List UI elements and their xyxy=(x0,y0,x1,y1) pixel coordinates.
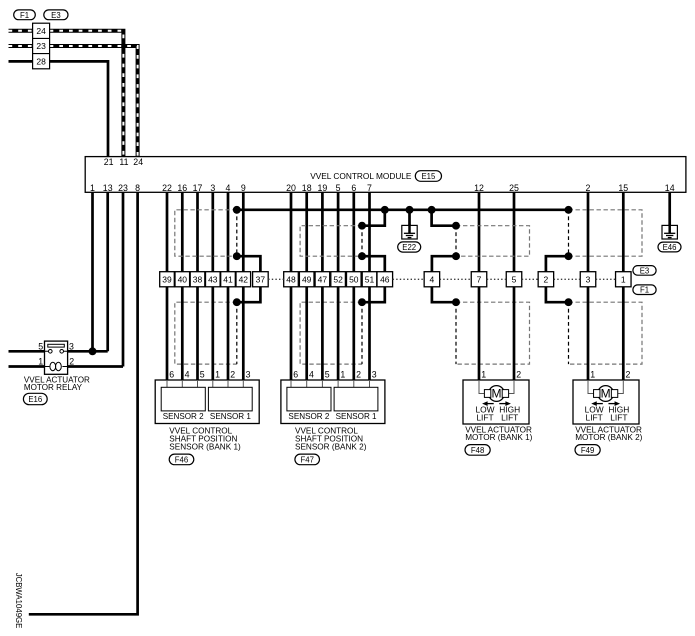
svg-text:15: 15 xyxy=(618,183,628,193)
dotted link 5-2 xyxy=(522,278,538,280)
svg-text:7: 7 xyxy=(477,274,482,284)
wire pin15 to splice 1 xyxy=(622,192,625,271)
splice 41 xyxy=(221,272,236,287)
motor F48 symbol xyxy=(479,380,514,394)
svg-text:F49: F49 xyxy=(581,446,594,455)
shield outline bank2 sensor lower xyxy=(300,302,362,364)
svg-text:28: 28 xyxy=(36,56,46,66)
splice 52 xyxy=(331,272,346,287)
svg-text:E16: E16 xyxy=(28,395,42,404)
wire 23 (two-tone) to module pin 24 xyxy=(9,44,33,48)
wire bus to ground E22 xyxy=(408,210,411,226)
wire splice 7 to motor F48 pin1 xyxy=(478,287,481,380)
svg-text:2: 2 xyxy=(69,357,74,367)
motor F49 symbol xyxy=(588,380,623,394)
svg-text:5: 5 xyxy=(512,274,517,284)
svg-text:50: 50 xyxy=(349,274,359,284)
svg-text:12: 12 xyxy=(474,183,484,193)
shield outline bank2 sensor upper xyxy=(300,226,362,257)
wire 24 (two-tone) to module pin 11 xyxy=(9,29,33,33)
svg-text:E3: E3 xyxy=(51,11,61,20)
shield drain bank2 actuator lower xyxy=(568,302,570,364)
svg-text:2: 2 xyxy=(230,370,235,380)
svg-text:F1: F1 xyxy=(640,286,649,295)
splice 38 xyxy=(190,272,205,287)
svg-text:40: 40 xyxy=(178,274,188,284)
junction dots upper elbows xyxy=(358,222,366,230)
svg-text:2: 2 xyxy=(356,370,361,380)
dotted link 46-4 xyxy=(393,278,425,280)
shield drain bank1 sensor upper xyxy=(236,210,238,256)
svg-text:1: 1 xyxy=(90,183,95,193)
shield outline bank2 actuator lower xyxy=(569,302,643,364)
bus tap to bank2 sensor shield xyxy=(362,210,385,226)
svg-text:5: 5 xyxy=(38,341,43,351)
svg-text:2: 2 xyxy=(544,274,549,284)
wire splice 4 to lower shield xyxy=(432,287,456,302)
svg-text:39: 39 xyxy=(162,274,172,284)
splice 5 xyxy=(506,272,522,287)
wire pin12 to splice 7 xyxy=(478,192,481,271)
splice 46 xyxy=(377,272,393,287)
splice 50 xyxy=(347,272,362,287)
splice 3 xyxy=(580,272,596,287)
svg-text:LIFT: LIFT xyxy=(501,412,518,422)
wires module pins 22 16 17 3 4 9 to splices 39 40 38 43 41 42 xyxy=(166,192,169,271)
dotted link 4-7 xyxy=(440,278,472,280)
splice 39 xyxy=(160,272,175,287)
dotted link 7-5 xyxy=(487,278,507,280)
svg-text:46: 46 xyxy=(380,274,390,284)
wire pin2 to splice 3 xyxy=(587,192,590,271)
wire pin8 to bottom left xyxy=(29,192,138,614)
svg-text:3: 3 xyxy=(246,370,251,380)
svg-text:41: 41 xyxy=(223,274,233,284)
wires splices 39-42 to sensor F46 xyxy=(166,287,169,380)
splice 1 xyxy=(616,272,632,287)
svg-text:2: 2 xyxy=(626,370,631,380)
junction dots on bus xyxy=(233,206,241,214)
VVEL control shaft position sensor (bank 2) F47 xyxy=(281,380,385,424)
splice 2 xyxy=(538,272,554,287)
svg-text:JCBWA1049GE: JCBWA1049GE xyxy=(14,573,23,629)
svg-text:1: 1 xyxy=(621,274,626,284)
svg-text:6: 6 xyxy=(293,370,298,380)
shield outline bank1 actuator upper xyxy=(456,226,530,257)
svg-text:1: 1 xyxy=(590,370,595,380)
svg-text:16: 16 xyxy=(177,183,187,193)
VVEL actuator motor relay E16 xyxy=(9,350,45,353)
shield drain bank2 actuator upper xyxy=(568,210,570,256)
svg-text:SENSOR 1: SENSOR 1 xyxy=(210,412,251,421)
svg-text:F1: F1 xyxy=(20,11,29,20)
svg-text:24: 24 xyxy=(36,26,46,36)
svg-text:SENSOR 2: SENSOR 2 xyxy=(163,412,204,421)
svg-text:14: 14 xyxy=(665,183,675,193)
shield drain bank1 actuator upper xyxy=(455,226,457,257)
svg-text:25: 25 xyxy=(509,183,519,193)
svg-text:23: 23 xyxy=(36,41,46,51)
svg-text:2: 2 xyxy=(516,370,521,380)
wire pin1 to relay junction xyxy=(91,192,94,351)
svg-text:M: M xyxy=(492,387,502,401)
svg-text:E22: E22 xyxy=(402,243,416,252)
svg-text:SENSOR 2: SENSOR 2 xyxy=(288,412,329,421)
motor F49 direction arrows xyxy=(595,403,603,405)
svg-text:17: 17 xyxy=(193,183,203,193)
wire pin13 to relay pin3 xyxy=(106,192,109,351)
svg-text:52: 52 xyxy=(333,274,343,284)
shield drain bank2 sensor upper xyxy=(361,226,363,257)
shield outline bank2 actuator upper xyxy=(569,210,643,256)
svg-text:18: 18 xyxy=(302,183,312,193)
splice 40 xyxy=(175,272,190,287)
svg-text:13: 13 xyxy=(103,183,113,193)
svg-text:11: 11 xyxy=(119,157,128,167)
wire splice 1 to motor F49 pin2 xyxy=(622,287,625,380)
svg-text:LIFT: LIFT xyxy=(586,412,603,422)
svg-text:8: 8 xyxy=(135,183,140,193)
splice 7 xyxy=(471,272,487,287)
svg-text:LIFT: LIFT xyxy=(610,412,627,422)
VVEL actuator motor (bank 2) F49 xyxy=(573,380,639,424)
svg-text:MOTOR RELAY: MOTOR RELAY xyxy=(24,383,83,392)
wire splice 2 to lower shield xyxy=(546,287,569,302)
shield outline bank1 sensor lower xyxy=(175,302,237,364)
junction dots lower elbows xyxy=(233,298,241,306)
svg-text:E15: E15 xyxy=(421,172,436,181)
svg-text:E46: E46 xyxy=(663,243,677,252)
svg-text:1: 1 xyxy=(38,357,43,367)
svg-text:20: 20 xyxy=(286,183,296,193)
VVEL actuator motor (bank 1) F48 xyxy=(463,380,529,424)
wires module pins 20 18 19 5 6 7 to splices 48 49 47 52 50 51 xyxy=(290,192,293,271)
wire 28 (solid) to module pin 21 xyxy=(9,60,33,63)
dotted link 3-1 xyxy=(596,278,616,280)
joint connector block 24/23/28 xyxy=(33,23,50,69)
svg-text:5: 5 xyxy=(200,370,205,380)
svg-text:6: 6 xyxy=(351,183,356,193)
svg-text:9: 9 xyxy=(241,183,246,193)
svg-text:1: 1 xyxy=(215,370,220,380)
svg-text:22: 22 xyxy=(162,183,172,193)
svg-text:38: 38 xyxy=(193,274,203,284)
connector F1 (top) xyxy=(14,10,36,20)
svg-text:5: 5 xyxy=(325,370,330,380)
wire shield to splice 46 xyxy=(362,256,385,272)
svg-text:3: 3 xyxy=(210,183,215,193)
wire splice 46 to lower shield xyxy=(362,287,385,302)
svg-text:3: 3 xyxy=(69,341,74,351)
svg-text:MOTOR (BANK 1): MOTOR (BANK 1) xyxy=(465,433,532,442)
svg-text:F46: F46 xyxy=(175,455,188,464)
wires splices 48-51 to sensor F47 xyxy=(290,287,293,380)
svg-text:SENSOR (BANK 2): SENSOR (BANK 2) xyxy=(295,442,367,451)
VVEL control module E15 xyxy=(85,157,686,193)
dotted link 2-3 xyxy=(554,278,581,280)
ground E22 xyxy=(402,224,417,239)
shield outline bank1 sensor upper xyxy=(175,210,237,256)
svg-text:19: 19 xyxy=(318,183,328,193)
splice 47 xyxy=(315,272,330,287)
svg-text:24: 24 xyxy=(133,157,143,167)
svg-text:4: 4 xyxy=(185,370,190,380)
splice 42 xyxy=(236,272,251,287)
wire shield to splice 37 xyxy=(237,256,261,272)
svg-text:VVEL CONTROL MODULE: VVEL CONTROL MODULE xyxy=(310,171,412,181)
shield bus wire xyxy=(237,208,569,211)
svg-text:E3: E3 xyxy=(640,266,650,275)
svg-text:21: 21 xyxy=(104,157,114,167)
splice 37 xyxy=(253,272,269,287)
svg-text:MOTOR (BANK 2): MOTOR (BANK 2) xyxy=(575,433,642,442)
dotted link 37-48 xyxy=(268,278,284,280)
svg-text:M: M xyxy=(601,387,611,401)
junction dots shield lower ends xyxy=(233,252,241,260)
shield outline bank1 actuator lower xyxy=(456,302,530,364)
splice 49 xyxy=(299,272,314,287)
svg-text:3: 3 xyxy=(372,370,377,380)
splice 48 xyxy=(284,272,299,287)
svg-text:F48: F48 xyxy=(471,446,484,455)
splice 51 xyxy=(362,272,377,287)
wire splice 3 to motor F49 pin1 xyxy=(587,287,590,380)
wire pin14 to ground E46 xyxy=(668,192,671,226)
svg-text:47: 47 xyxy=(318,274,328,284)
wire pin25 to splice 5 xyxy=(513,192,516,271)
svg-text:1: 1 xyxy=(481,370,486,380)
svg-text:3: 3 xyxy=(586,274,591,284)
svg-text:43: 43 xyxy=(208,274,218,284)
wire splice 37 to lower shield xyxy=(237,287,261,302)
shield drain bank1 sensor lower xyxy=(236,302,238,364)
svg-text:48: 48 xyxy=(286,274,296,284)
splice 43 xyxy=(206,272,221,287)
ground E46 xyxy=(662,224,677,239)
VVEL control shaft position sensor (bank 1) F46 xyxy=(155,380,259,424)
wire splice 5 to motor F48 pin2 xyxy=(513,287,516,380)
connector E3 (top) xyxy=(44,10,68,20)
svg-text:2: 2 xyxy=(586,183,591,193)
svg-text:F47: F47 xyxy=(300,455,313,464)
svg-text:1: 1 xyxy=(340,370,345,380)
svg-text:LIFT: LIFT xyxy=(476,412,493,422)
svg-text:4: 4 xyxy=(430,274,435,284)
connector E3 (right) xyxy=(633,266,656,276)
motor F48 direction arrows xyxy=(486,403,494,405)
svg-text:7: 7 xyxy=(367,183,372,193)
svg-text:SENSOR (BANK 1): SENSOR (BANK 1) xyxy=(169,442,241,451)
svg-text:42: 42 xyxy=(239,274,249,284)
shield drain bank1 actuator lower xyxy=(455,302,457,364)
svg-text:51: 51 xyxy=(365,274,375,284)
bus tap to bank1 actuator shield xyxy=(432,210,456,226)
wire pin23 to relay pin2 xyxy=(122,192,125,366)
svg-text:23: 23 xyxy=(118,183,128,193)
wire shield to splice 4 xyxy=(432,256,456,272)
wire shield to splice 2 xyxy=(546,256,569,272)
svg-text:37: 37 xyxy=(256,274,266,284)
svg-text:49: 49 xyxy=(302,274,312,284)
svg-text:6: 6 xyxy=(169,370,174,380)
svg-text:4: 4 xyxy=(309,370,314,380)
splice 4 xyxy=(424,272,440,287)
shield drain bank2 sensor lower xyxy=(361,302,363,364)
svg-text:5: 5 xyxy=(336,183,341,193)
svg-text:4: 4 xyxy=(226,183,231,193)
svg-text:SENSOR 1: SENSOR 1 xyxy=(336,412,377,421)
connector F1 (right) xyxy=(633,285,656,295)
